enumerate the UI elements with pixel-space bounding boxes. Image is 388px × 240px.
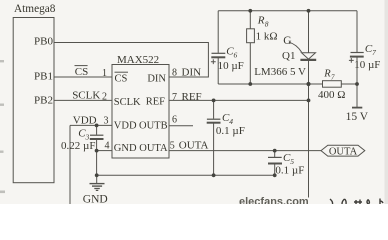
svg-text:0.1 µF: 0.1 µF [216, 125, 245, 137]
svg-text:15 V: 15 V [346, 111, 369, 123]
svg-text:VDD: VDD [114, 120, 137, 131]
top supply rail [218, 10, 357, 12]
wire OUTB pin6 stub [169, 125, 193, 127]
C6 plus sign [211, 59, 216, 64]
svg-text:elecfans.com: elecfans.com [239, 196, 309, 204]
OUTA net tag hexagon [321, 145, 365, 156]
resistor R7 body [323, 81, 342, 88]
capacitor C6 plates [212, 52, 226, 54]
svg-text:SCLK: SCLK [72, 90, 100, 102]
node rail-R8 top junction [248, 9, 252, 13]
svg-text:0.22 µF: 0.22 µF [61, 140, 95, 152]
svg-text:CS: CS [75, 66, 88, 78]
capacitor C7 leads [356, 11, 358, 107]
bottom ground rail [97, 174, 275, 176]
wire PB0 to DIN pin8 [54, 43, 208, 78]
wire VDD rail to pin3 [70, 124, 112, 126]
svg-text:OUTA: OUTA [329, 147, 358, 158]
capacitor C3 leads [96, 125, 98, 175]
left margin scan smudges [0, 60, 5, 193]
svg-text:G: G [283, 35, 291, 47]
svg-text:OUTA: OUTA [179, 140, 209, 152]
wire VDD column down left [69, 125, 71, 204]
node C3-rail junction [95, 173, 99, 177]
bottom right cropped glyphs [330, 199, 383, 205]
capacitor C4 plates [207, 118, 221, 120]
IC U2 Atmega8 box [13, 18, 54, 183]
wire PB2 to SCLK pin2 [54, 99, 112, 101]
svg-text:8: 8 [265, 19, 269, 28]
Q1 diode triangle [302, 53, 316, 59]
15V supply bar [352, 107, 362, 109]
svg-text:DIN: DIN [147, 73, 166, 84]
svg-text:2: 2 [102, 92, 107, 103]
C7 plus sign [349, 58, 354, 63]
Q1 anode column down [308, 61, 310, 198]
svg-text:Q1: Q1 [282, 50, 295, 62]
wire OUTA pin5 to tag [169, 150, 321, 152]
svg-text:OUTB: OUTB [139, 120, 168, 131]
node C4-rail junction [212, 173, 216, 177]
svg-text:1 kΩ: 1 kΩ [256, 31, 278, 43]
svg-text:10 µF: 10 µF [218, 60, 244, 72]
svg-text:CS: CS [115, 73, 128, 84]
node C4-REF junction [212, 99, 216, 103]
svg-text:LM366 5 V: LM366 5 V [254, 66, 306, 78]
capacitor C4 leads [213, 100, 215, 175]
capacitor C5 plates [268, 156, 282, 158]
svg-text:7: 7 [331, 73, 335, 81]
wire PB1 to CS pin1 [54, 76, 112, 78]
node rail-Q1 top junction [307, 9, 311, 13]
lower horizontal wire C6 to R7 [218, 83, 322, 85]
overline CS net label [75, 65, 88, 67]
svg-text:REF: REF [146, 97, 165, 108]
Q1 cathode bar [300, 59, 316, 61]
svg-text:8: 8 [172, 67, 177, 78]
node C5-rail junction [273, 173, 277, 177]
capacitor C3 plates [90, 134, 103, 136]
node C5-OUTA junction [273, 149, 277, 153]
right edge scan shading [385, 0, 388, 204]
svg-text:R: R [257, 14, 265, 26]
svg-text:0.1 µF: 0.1 µF [275, 164, 304, 176]
svg-text:PB1: PB1 [34, 70, 53, 82]
svg-text:REF: REF [182, 91, 202, 103]
svg-text:1: 1 [102, 68, 107, 79]
overline CS inside [115, 71, 129, 73]
svg-text:GND: GND [114, 143, 137, 154]
svg-text:MAX522: MAX522 [117, 54, 159, 66]
node VDD-C3 junction [95, 124, 99, 128]
resistor R8 leads [249, 11, 251, 84]
svg-text:400 Ω: 400 Ω [318, 89, 345, 101]
svg-text:6: 6 [234, 50, 238, 59]
svg-text:GND: GND [83, 194, 108, 205]
svg-text:PB2: PB2 [34, 94, 53, 106]
node Q1-wire junction [306, 82, 310, 86]
wire R7 to C7 column [341, 83, 357, 85]
svg-text:7: 7 [172, 92, 177, 103]
node REF-Q1 junction [307, 99, 311, 103]
svg-text:3: 3 [104, 115, 109, 126]
ground symbol [96, 175, 98, 183]
svg-text:SCLK: SCLK [114, 97, 141, 108]
wire pin4 GND to C3 column [97, 150, 112, 152]
svg-text:5: 5 [170, 141, 175, 152]
capacitor C7 plates [351, 52, 364, 54]
MAX522 IC box U1 [112, 65, 169, 159]
resistor R8 body [247, 29, 255, 43]
svg-text:10 µF: 10 µF [354, 59, 380, 71]
svg-text:VDD: VDD [73, 115, 97, 127]
svg-text:4: 4 [105, 140, 110, 151]
wire REF pin7 to Q1 column [169, 99, 309, 101]
svg-text:7: 7 [372, 48, 376, 57]
Q1 cathode wire from rail [308, 11, 310, 53]
svg-text:DIN: DIN [182, 66, 202, 78]
node C3-pin4 junction [95, 149, 99, 153]
svg-text:OUTA: OUTA [139, 143, 168, 154]
node R8-wire junction [248, 82, 252, 86]
Q1 gate arc [289, 42, 302, 52]
svg-text:6: 6 [172, 115, 177, 126]
capacitor C5 leads [274, 151, 276, 176]
svg-text:PB0: PB0 [34, 35, 53, 47]
svg-text:Atmega8: Atmega8 [14, 3, 56, 15]
node R7-C7 junction [355, 82, 359, 86]
capacitor C6 leads [217, 11, 219, 84]
